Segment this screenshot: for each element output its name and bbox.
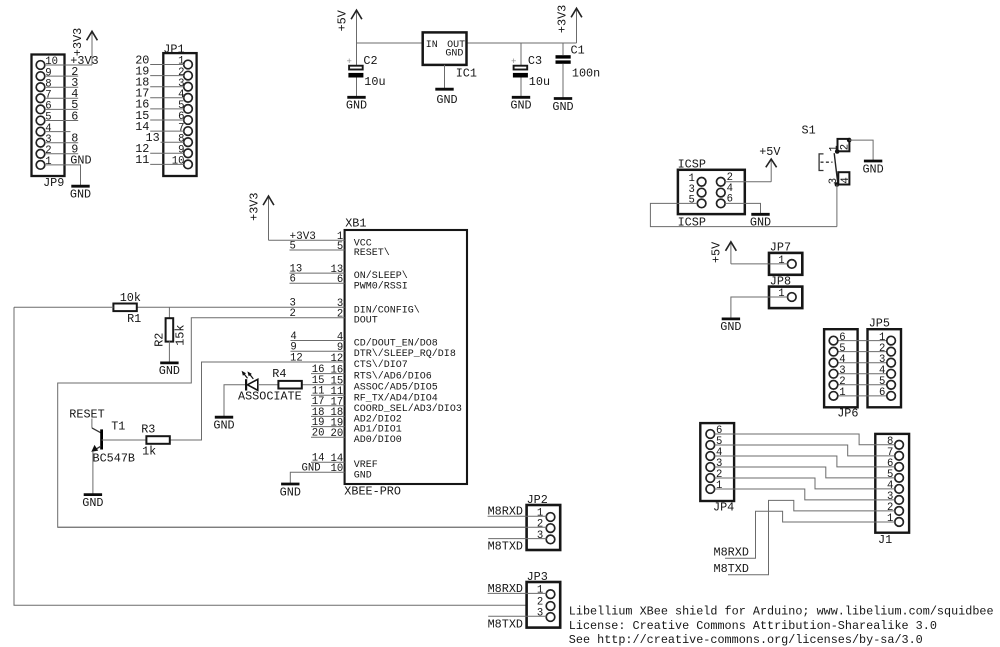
wire DIN net left of R1	[14, 306, 113, 308]
svg-text:R2: R2	[152, 333, 166, 347]
svg-text:JP3: JP3	[527, 570, 548, 584]
svg-text:10: 10	[172, 156, 185, 168]
wire XB1 pin5 stub	[290, 249, 345, 251]
JP3 pin 1 circle	[546, 590, 555, 599]
JP2 pin 3 circle	[546, 535, 555, 544]
connector JP1 pin 6 circle	[184, 116, 193, 125]
ground symbol below C2	[347, 96, 365, 99]
wire JP2 pin3 stub	[488, 538, 546, 540]
wire ICSP pin6 to ground	[725, 203, 760, 213]
svg-text:+5V: +5V	[759, 145, 781, 159]
wire JP8 pin1 to ground	[731, 297, 788, 318]
svg-text:12: 12	[290, 352, 303, 364]
svg-text:CD/DOUT_EN/DO8: CD/DOUT_EN/DO8	[354, 338, 438, 350]
connector JP9 pin 4 circle	[36, 127, 45, 136]
wire JP2 pin1 stub	[488, 515, 547, 517]
svg-text:12: 12	[330, 353, 343, 365]
svg-text:2: 2	[537, 519, 543, 531]
JP4 pin 4 circle	[706, 452, 715, 461]
svg-text:6: 6	[337, 274, 343, 286]
svg-text:ASSOCIATE: ASSOCIATE	[238, 390, 302, 404]
svg-text:R3: R3	[141, 422, 155, 436]
JP2 pin 2 circle	[546, 524, 555, 533]
wire JP9 pin3 stub	[45, 142, 78, 144]
svg-text:See http://creative-commons.or: See http://creative-commons.org/licenses…	[569, 633, 923, 647]
svg-text:T1: T1	[111, 420, 125, 434]
header JP2 box	[527, 505, 561, 550]
svg-text:JP7: JP7	[770, 241, 791, 255]
wire T1 base to R3	[102, 439, 147, 441]
wire R2 top	[168, 307, 170, 318]
voltage regulator IC1 box	[423, 32, 467, 65]
connector JP1 box	[163, 53, 196, 176]
svg-text:ICSP: ICSP	[678, 215, 706, 229]
ICSP pin 2 circle	[717, 178, 726, 187]
wire JP2 pin2 from DOUT net	[58, 526, 547, 528]
connector JP9 pin 9 circle	[36, 72, 45, 81]
wire JP4 pin 5 to J1 pin 7	[715, 445, 895, 456]
wire XB1 pin20 stub	[311, 436, 345, 438]
svg-text:RESET: RESET	[69, 407, 104, 421]
svg-text:1: 1	[45, 156, 51, 168]
svg-text:JP6: JP6	[837, 407, 858, 421]
svg-text:AD2/DIO2: AD2/DIO2	[354, 413, 402, 425]
JP5 pin 2 circle	[887, 347, 896, 356]
capacitor C2 wire top	[356, 43, 358, 66]
JP3 pin 3 circle	[546, 613, 555, 622]
connector JP9 pin 10 circle	[36, 61, 45, 70]
svg-text:11: 11	[135, 153, 149, 167]
svg-text:XB1: XB1	[345, 217, 366, 231]
svg-text:S1: S1	[802, 123, 816, 137]
connector JP1 pin 1 circle	[184, 60, 193, 69]
svg-text:10u: 10u	[529, 75, 550, 89]
ground symbol below IC1	[435, 88, 453, 91]
svg-text:License: Creative Commons Attr: License: Creative Commons Attribution-Sh…	[569, 619, 937, 633]
wire JP9 pin6 stub	[45, 108, 78, 110]
JP5 pin 1 circle	[887, 336, 896, 345]
supply +5V arrow at JP7	[730, 243, 732, 264]
connector JP9 pin 2 circle	[36, 150, 45, 159]
wire JP7 pin1 to +5V	[731, 263, 788, 265]
wire JP6 pin 2 to JP5 pin 5	[838, 384, 887, 386]
svg-text:GND: GND	[280, 485, 301, 499]
svg-text:1: 1	[839, 387, 845, 399]
ICSP pin 4 circle	[717, 188, 726, 197]
svg-text:RF_TX/AD4/DIO4: RF_TX/AD4/DIO4	[354, 392, 438, 404]
ground symbol right of S1	[864, 160, 882, 163]
connector JP1 pin 10 circle	[184, 160, 193, 169]
svg-text:1: 1	[537, 585, 543, 597]
wire C3 to ground	[520, 78, 522, 97]
svg-text:+3V3: +3V3	[71, 28, 85, 56]
connector JP5 box	[868, 329, 902, 407]
JP6 pin 3 circle	[829, 369, 838, 378]
svg-text:JP2: JP2	[527, 493, 548, 507]
svg-text:ON/SLEEP\: ON/SLEEP\	[354, 270, 408, 282]
wire XB1 pin11 stub	[311, 394, 345, 396]
wire M8RXD to J1 pin1	[725, 511, 895, 558]
wire JP4 pin 2 to J1 pin 4	[715, 478, 895, 489]
connector JP1 pin 9 circle	[184, 149, 193, 158]
svg-text:GND: GND	[302, 463, 321, 475]
JP5 pin 4 circle	[887, 369, 896, 378]
svg-text:GND: GND	[159, 364, 180, 378]
wire JP1 pin6 stub	[150, 119, 184, 121]
svg-text:GND: GND	[70, 154, 91, 168]
svg-text:COORD_SEL/AD3/DIO3: COORD_SEL/AD3/DIO3	[354, 403, 462, 415]
wire XB1 pin19 stub	[311, 426, 345, 428]
JP3 pin 2 circle	[546, 602, 555, 611]
resistor R1	[113, 304, 136, 312]
wire JP6 pin 5 to JP5 pin 2	[838, 351, 887, 353]
switch S1 junction dot pin3	[835, 182, 840, 187]
svg-text:ICSP: ICSP	[678, 158, 706, 172]
transistor T1 base bar	[100, 429, 103, 449]
wire JP1 pin2 stub	[150, 75, 184, 77]
svg-text:GND: GND	[750, 215, 771, 229]
svg-text:+3V3: +3V3	[555, 5, 569, 33]
svg-text:JP4: JP4	[713, 500, 734, 514]
JP6 pin 5 circle	[829, 347, 838, 356]
wire left bus down to JP3 pin2	[14, 307, 527, 605]
wire JP9 pin9 stub	[45, 75, 78, 77]
connector JP1 pin 4 circle	[184, 94, 193, 103]
svg-text:1: 1	[716, 480, 722, 492]
ground symbol at ICSP pin6	[751, 213, 769, 216]
connector JP1 pin 2 circle	[184, 71, 193, 80]
svg-text:C3: C3	[528, 54, 542, 68]
svg-text:RTS\/AD6/DIO6: RTS\/AD6/DIO6	[354, 371, 432, 383]
wire ICSP pin5 to S1 pin3	[650, 203, 837, 226]
svg-text:3: 3	[537, 530, 543, 542]
svg-text:20: 20	[330, 428, 343, 440]
svg-text:1: 1	[887, 513, 893, 525]
ground symbol below XB1	[281, 483, 299, 486]
J1 pin 6 circle	[895, 463, 904, 472]
svg-text:GND: GND	[862, 162, 883, 176]
connector JP6 box	[824, 329, 858, 407]
wire JP1 pin9 stub	[150, 152, 184, 154]
svg-text:GND: GND	[510, 99, 531, 113]
switch S1 actuator bracket	[819, 154, 823, 171]
svg-text:1: 1	[778, 288, 784, 300]
svg-text:IC1: IC1	[456, 66, 477, 80]
J1 pin 1 circle	[895, 518, 904, 527]
svg-text:GND: GND	[213, 419, 234, 433]
wire JP6 pin 4 to JP5 pin 3	[838, 362, 887, 364]
JP8 pin 1 circle	[788, 293, 797, 302]
capacitor C1 wire top	[562, 43, 564, 55]
wire RESET to T1 collector	[91, 419, 93, 428]
wire M8TXD to J1 pin2	[728, 500, 895, 574]
svg-text:R1: R1	[127, 312, 141, 326]
svg-text:100n: 100n	[572, 66, 600, 80]
JP6 pin 6 circle	[829, 336, 838, 345]
svg-text:+: +	[347, 57, 352, 67]
svg-text:M8TXD: M8TXD	[488, 539, 523, 553]
wire JP1 pin7 stub	[150, 130, 184, 132]
svg-text:AD0/DIO0: AD0/DIO0	[354, 434, 402, 446]
svg-text:10u: 10u	[364, 75, 385, 89]
wire JP1 pin4 stub	[150, 97, 184, 99]
wire CTS net from R3 to XB1 pin12	[169, 362, 344, 440]
svg-text:GND: GND	[70, 188, 91, 202]
wire XB1 pin9 stub	[290, 350, 344, 352]
ground symbol below LED	[215, 416, 233, 419]
wire XB1 pin10 GND down	[290, 472, 344, 483]
svg-text:RESET\: RESET\	[354, 247, 390, 259]
connector JP1 pin 5 circle	[184, 105, 193, 114]
connector JP9 pin 7 circle	[36, 94, 45, 103]
header JP7 box	[769, 253, 802, 275]
capacitor C3 polarized plates	[514, 66, 528, 70]
wire JP1 pin3 stub	[150, 86, 184, 88]
wire S1 pin3 down to ICSP net	[836, 185, 838, 227]
connector JP4 box	[700, 423, 734, 501]
header JP8 box	[769, 287, 802, 309]
svg-text:Libellium XBee shield for Ardu: Libellium XBee shield for Arduino; www.l…	[569, 605, 994, 619]
LED triangle	[247, 379, 257, 390]
svg-text:GND: GND	[82, 496, 103, 510]
svg-text:6: 6	[71, 109, 78, 123]
wire DOUT net from XB1 pin2	[58, 318, 527, 528]
svg-text:2: 2	[337, 309, 343, 321]
ICSP pin 1 circle	[697, 178, 706, 187]
wire JP9 pin10 to +3V3	[45, 64, 92, 66]
svg-text:5: 5	[337, 241, 343, 253]
svg-text:1: 1	[778, 255, 784, 267]
svg-text:PWM0/RSSI: PWM0/RSSI	[354, 280, 408, 292]
svg-text:+: +	[511, 57, 516, 67]
connector JP1 pin 7 circle	[184, 127, 193, 136]
svg-text:M8TXD: M8TXD	[714, 562, 749, 576]
wire XB1 pin18 stub	[311, 415, 345, 417]
wire JP4 pin 4 to J1 pin 6	[715, 456, 895, 467]
header ICSP box	[678, 170, 745, 214]
svg-text:2: 2	[290, 308, 296, 320]
wire JP4 pin 6 to J1 pin 8	[715, 434, 895, 445]
supply +3V3 arrow at XB1 VCC	[268, 197, 270, 240]
wire XB1 pin17 stub	[311, 405, 345, 407]
J1 pin 2 circle	[895, 507, 904, 516]
header JP3 box	[527, 582, 561, 628]
JP6 pin 4 circle	[829, 358, 838, 367]
supply +3V3 arrow top right	[576, 9, 578, 43]
LED associate cathode wire to ground	[224, 385, 246, 416]
switch S1 contact box pin2	[838, 139, 850, 151]
wire JP6 pin 1 to JP5 pin 6	[838, 395, 887, 397]
svg-text:3: 3	[537, 607, 543, 619]
wire XB1 pin16 stub	[311, 373, 345, 375]
wire C1 to ground	[562, 64, 564, 98]
capacitor C1 plates	[556, 55, 571, 58]
connector JP9 box	[32, 55, 65, 177]
ICSP pin 5 circle	[697, 199, 706, 208]
J1 pin 8 circle	[895, 441, 904, 450]
JP5 pin 3 circle	[887, 358, 896, 367]
ground symbol below T1	[84, 493, 102, 496]
JP4 pin 2 circle	[706, 474, 715, 483]
wire JP9 pin2 stub	[45, 153, 78, 155]
svg-text:2: 2	[839, 144, 851, 150]
ICSP pin 3 circle	[697, 188, 706, 197]
wire C2 to ground	[356, 78, 358, 97]
J1 pin 3 circle	[895, 496, 904, 505]
ground symbol below C1	[554, 97, 572, 100]
svg-text:+5V: +5V	[335, 9, 349, 31]
xbee module XB1 box	[345, 230, 467, 484]
ground symbol below JP9	[71, 185, 89, 188]
wire JP6 pin 6 to JP5 pin 1	[838, 340, 887, 342]
connector JP9 pin 8 circle	[36, 83, 45, 92]
wire R2 bottom to ground	[168, 341, 170, 362]
svg-text:BC547B: BC547B	[93, 451, 135, 465]
wire JP4 pin 3 to J1 pin 5	[715, 467, 895, 478]
switch S1 lever	[834, 153, 838, 183]
junction dot at S1 pin2 corner	[847, 138, 852, 143]
JP7 pin 1 circle	[788, 260, 797, 269]
svg-text:10: 10	[330, 463, 343, 475]
wire XB1 pin6 stub	[290, 282, 345, 284]
svg-text:JP8: JP8	[770, 274, 791, 288]
transistor T1 emitter lead	[93, 446, 101, 451]
resistor R2	[166, 318, 174, 341]
wire XB1 pin4 stub	[290, 340, 344, 342]
wire JP9 pin5 stub	[45, 120, 78, 122]
svg-text:6: 6	[290, 274, 296, 286]
wire XB1 pin13 stub	[290, 272, 345, 274]
ground symbol below R2	[160, 361, 178, 364]
wire JP9 pin7 stub	[45, 97, 78, 99]
connector JP9 pin 1 circle	[36, 161, 45, 170]
wire JP9 pin4 stub	[45, 131, 71, 133]
svg-text:+5V: +5V	[710, 241, 724, 263]
svg-text:C2: C2	[363, 54, 377, 68]
wire JP9 pin8 stub	[45, 86, 78, 88]
JP5 pin 6 circle	[887, 392, 896, 401]
LED light arrow 2	[249, 373, 254, 379]
svg-text:CTS\/DIO7: CTS\/DIO7	[354, 359, 408, 371]
svg-text:DOUT: DOUT	[354, 316, 378, 327]
supply +5V arrow top	[356, 11, 358, 43]
svg-text:DTR\/SLEEP_RQ/DI8: DTR\/SLEEP_RQ/DI8	[354, 348, 456, 360]
wire JP1 pin8 stub	[161, 141, 184, 143]
JP4 pin 3 circle	[706, 463, 715, 472]
wire T1 emitter to ground	[92, 451, 94, 493]
JP6 pin 2 circle	[829, 381, 838, 390]
ground symbol below JP8	[722, 317, 740, 320]
wire S1 pin2 to ground	[849, 140, 873, 160]
wire IC1 GND pin down	[444, 65, 446, 88]
svg-text:GND: GND	[552, 100, 573, 114]
wire JP9 pin1 to GND	[45, 165, 81, 185]
svg-text:J1: J1	[878, 533, 892, 547]
wire +5V rail to IC1 IN	[357, 42, 423, 44]
supply +3V3 arrow at JP9	[91, 32, 93, 65]
J1 pin 4 circle	[895, 485, 904, 494]
svg-text:15k: 15k	[174, 325, 188, 346]
svg-text:M8RXD: M8RXD	[714, 545, 749, 559]
ICSP pin 6 circle	[717, 199, 726, 208]
connector JP9 pin 3 circle	[36, 138, 45, 147]
svg-text:10k: 10k	[120, 291, 141, 305]
LED light arrow 1	[243, 372, 248, 378]
svg-text:1k: 1k	[142, 445, 156, 459]
wire R4 to XB1 pin15	[302, 384, 345, 386]
wire IC1 OUT to +3V3 rail	[467, 42, 577, 44]
wire JP3 pin3 stub	[488, 615, 546, 617]
svg-text:ASSOC/AD5/DIO5: ASSOC/AD5/DIO5	[354, 382, 438, 394]
svg-text:4: 4	[840, 177, 852, 183]
svg-text:GND: GND	[436, 93, 457, 107]
wire JP1 pin1 stub	[150, 64, 184, 66]
svg-text:5: 5	[688, 195, 694, 207]
svg-text:XBEE-PRO: XBEE-PRO	[344, 485, 401, 499]
svg-text:+3V3: +3V3	[290, 231, 316, 243]
wire JP1 pin5 stub	[150, 108, 184, 110]
wire ICSP pin2 to +5V	[725, 181, 771, 183]
switch S1 actuator dashed link	[821, 161, 833, 163]
supply +5V arrow at ICSP	[770, 160, 772, 182]
J1 pin 5 circle	[895, 474, 904, 483]
svg-text:DIN/CONFIG\: DIN/CONFIG\	[354, 304, 420, 316]
capacitor C2 polarized plates	[349, 66, 363, 70]
transistor T1 emitter arrowhead	[91, 445, 98, 452]
switch S1 contact box pin4	[838, 172, 849, 184]
svg-text:IN: IN	[426, 40, 438, 51]
connector JP1 pin 3 circle	[184, 82, 193, 91]
JP2 pin 1 circle	[546, 513, 555, 522]
JP4 pin 6 circle	[706, 430, 715, 439]
connector JP1 pin 8 circle	[184, 138, 193, 147]
resistor R4	[278, 381, 301, 389]
switch S1 junction dot pin1	[835, 149, 840, 154]
svg-text:AD1/DIO1: AD1/DIO1	[354, 424, 402, 436]
wire +3V3 to XB1 pin1 VCC	[269, 239, 345, 241]
LED cathode bar	[245, 379, 247, 390]
transistor T1 collector lead	[92, 428, 101, 433]
svg-text:+3V3: +3V3	[247, 193, 261, 221]
svg-text:GND: GND	[354, 470, 372, 481]
svg-text:GND: GND	[720, 320, 741, 334]
J1 pin 7 circle	[895, 452, 904, 461]
ground symbol below C3	[512, 96, 530, 99]
capacitor C3 wire top	[520, 43, 522, 66]
svg-text:6: 6	[879, 387, 885, 399]
svg-text:20: 20	[312, 428, 325, 440]
svg-text:JP5: JP5	[869, 317, 890, 331]
connector JP9 pin 6 circle	[36, 105, 45, 114]
svg-text:JP9: JP9	[43, 176, 64, 190]
svg-text:JP1: JP1	[163, 42, 184, 56]
wire JP1 pin10 stub	[150, 163, 184, 165]
connector J1 box	[875, 434, 909, 533]
wire XB1 pin14 stub	[311, 461, 345, 463]
resistor R3	[146, 436, 169, 444]
connector JP9 pin 5 circle	[36, 116, 45, 125]
JP4 pin 5 circle	[706, 441, 715, 450]
wire DIN net from R1 to XB1 pin3	[136, 306, 344, 308]
svg-text:R4: R4	[272, 367, 286, 381]
wire JP4 pin 1 to J1 pin 3	[715, 489, 895, 500]
wire LED anode to R4	[258, 384, 279, 386]
svg-text:GND: GND	[445, 48, 463, 59]
svg-text:C1: C1	[571, 43, 585, 57]
svg-text:GND: GND	[346, 99, 367, 113]
JP6 pin 1 circle	[829, 392, 838, 401]
JP4 pin 1 circle	[706, 485, 715, 494]
